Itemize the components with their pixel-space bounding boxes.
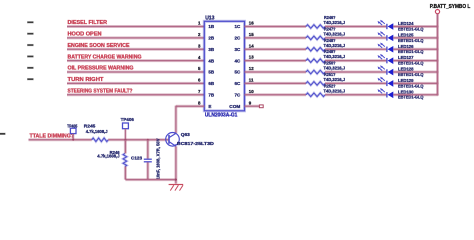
wire IC to resistor row 7	[245, 93, 307, 96]
svg-text:12: 12	[249, 66, 254, 71]
svg-text:1: 1	[198, 21, 201, 26]
svg-text:T4D,3216,J: T4D,3216,J	[324, 66, 346, 71]
wire row 2 left	[67, 36, 204, 39]
LED LED125	[378, 31, 394, 41]
svg-text:P.BATT_SYMBO L: P.BATT_SYMBO L	[430, 4, 471, 10]
wire LED to rail row 2	[393, 36, 438, 39]
wire resistor to LED row 7	[325, 93, 386, 96]
wire base net left	[29, 138, 92, 141]
off-page dash row 3	[27, 44, 33, 46]
svg-text:16: 16	[249, 21, 254, 26]
LED LED129	[378, 77, 394, 87]
svg-text:5: 5	[198, 66, 201, 71]
svg-text:5C: 5C	[235, 70, 242, 75]
LED LED127	[378, 54, 394, 64]
svg-text:6: 6	[198, 78, 201, 83]
svg-text:9: 9	[249, 100, 252, 105]
wire IC to resistor row 2	[245, 36, 307, 39]
svg-text:1B: 1B	[208, 24, 215, 29]
svg-text:11: 11	[249, 78, 254, 83]
resistor R245	[92, 138, 108, 142]
wire to C123	[146, 140, 149, 159]
resistor R247	[306, 36, 325, 40]
svg-text:C123: C123	[131, 156, 143, 161]
wire emitter down	[174, 146, 177, 183]
svg-text:5B: 5B	[208, 70, 215, 75]
off-page dash row 5	[27, 67, 33, 69]
svg-text:4: 4	[198, 55, 201, 60]
transistor Q63 symbol	[166, 133, 180, 147]
LED LED130	[378, 88, 394, 98]
LED LED126	[378, 42, 394, 52]
junction TP405	[72, 139, 74, 141]
wire pin8 E to Q63 collector	[176, 105, 204, 108]
resistor R246	[123, 154, 127, 167]
wire row 7 left	[67, 93, 204, 96]
wire IC to resistor row 6	[245, 82, 307, 85]
wire TP406 stub	[124, 129, 126, 140]
svg-text:T4D,3216,J: T4D,3216,J	[324, 20, 346, 25]
test point TP405 square	[70, 128, 76, 133]
wire P.BATT rail	[436, 14, 439, 96]
P.BATT terminal circle	[435, 10, 439, 14]
svg-text:ULN2003A-G1: ULN2003A-G1	[205, 112, 238, 118]
svg-text:2B: 2B	[208, 36, 215, 41]
svg-text:7C: 7C	[235, 92, 242, 97]
wire LED to rail row 6	[393, 82, 438, 85]
svg-text:10nF, 1608, X7R, 50V: 10nF, 1608, X7R, 50V	[156, 138, 161, 179]
junction C123 top	[147, 139, 149, 141]
wire TP405 stub	[72, 134, 74, 140]
wire resistor to LED row 1	[325, 25, 386, 28]
resistor R251	[306, 82, 325, 86]
svg-text:U13: U13	[205, 16, 214, 22]
svg-text:Q63: Q63	[181, 132, 190, 137]
off-page dash bottom	[0, 133, 5, 135]
wire resistor to LED row 2	[325, 36, 386, 39]
wire resistor to LED row 4	[325, 59, 386, 62]
svg-text:3C: 3C	[235, 47, 242, 52]
wire LED to rail row 3	[393, 48, 438, 51]
svg-text:15: 15	[249, 32, 254, 37]
svg-text:4B: 4B	[208, 58, 215, 63]
svg-text:6B: 6B	[208, 81, 215, 86]
off-page dash row 2	[27, 33, 33, 35]
svg-text:T4D,3216,J: T4D,3216,J	[324, 31, 346, 36]
off-page dash row 6	[27, 78, 33, 80]
wire resistor to LED row 6	[325, 82, 386, 85]
svg-text:T4D,3216,J: T4D,3216,J	[324, 54, 346, 59]
wire LED to rail row 1	[393, 25, 438, 28]
junction R246 top	[124, 139, 126, 141]
LED LED124	[378, 20, 394, 30]
wire LED to rail row 4	[393, 59, 438, 62]
svg-text:7B: 7B	[208, 92, 215, 97]
wire IC to resistor row 1	[245, 25, 307, 28]
off-page dash row 4	[27, 56, 33, 58]
ground	[169, 185, 184, 191]
svg-text:COM: COM	[229, 104, 240, 109]
resistor R248	[306, 47, 325, 51]
svg-text:10: 10	[249, 89, 254, 94]
svg-text:3B: 3B	[208, 47, 215, 52]
wire LED to rail row 5	[393, 71, 438, 74]
svg-text:13: 13	[249, 55, 254, 60]
svg-text:TP406: TP406	[121, 117, 135, 122]
svg-text:4C: 4C	[235, 58, 242, 63]
svg-text:1C: 1C	[235, 24, 242, 29]
resistor R250	[306, 70, 325, 74]
svg-text:2C: 2C	[235, 36, 242, 41]
wire pin9 COM stub	[245, 105, 260, 108]
wire C123 to rail	[146, 162, 149, 179]
wire to R246	[124, 140, 127, 154]
wire R246 to rail	[124, 167, 127, 180]
junction emitter rail	[175, 179, 177, 181]
svg-text:7: 7	[198, 89, 201, 94]
LED LED128	[378, 65, 394, 75]
svg-text:8: 8	[198, 100, 201, 105]
svg-text:6C: 6C	[235, 81, 242, 86]
wire resistor to LED row 5	[325, 71, 386, 74]
wire row 1 left	[67, 25, 204, 28]
wire IC to resistor row 5	[245, 71, 307, 74]
wire IC to resistor row 4	[245, 59, 307, 62]
wire collector vertical	[174, 106, 177, 134]
wire R245 to base	[108, 138, 168, 141]
svg-text:E: E	[208, 104, 211, 109]
svg-text:3: 3	[198, 43, 201, 48]
wire LED to rail row 7	[393, 93, 438, 96]
wire row 5 left	[67, 71, 204, 74]
resistor R249	[306, 59, 325, 63]
wire row 4 left	[67, 59, 204, 62]
capacitor C123 plates	[144, 159, 152, 162]
wire resistor to LED row 3	[325, 48, 386, 51]
svg-text:4.7k,1608,J: 4.7k,1608,J	[86, 129, 109, 134]
svg-text:T4D,3216,J: T4D,3216,J	[324, 88, 346, 93]
IC U13 ULN2003A-G1 body	[204, 21, 244, 111]
resistor R246	[306, 25, 325, 29]
wire row 3 left	[67, 48, 204, 51]
svg-text:T4D,3216,J: T4D,3216,J	[324, 77, 346, 82]
test point TP406 square	[123, 123, 129, 129]
wire bottom rail	[125, 178, 175, 181]
no-connect square on COM	[259, 105, 263, 108]
resistor R252	[306, 93, 325, 97]
svg-text:T4D,3216,J: T4D,3216,J	[324, 43, 346, 48]
svg-text:14: 14	[249, 43, 254, 48]
svg-text:2: 2	[198, 32, 201, 37]
wire row 6 left	[67, 82, 204, 85]
wire IC to resistor row 3	[245, 48, 307, 51]
svg-text:R245: R245	[84, 124, 96, 129]
off-page dash row 1	[27, 22, 33, 24]
svg-text:BC817-25LT3D: BC817-25LT3D	[177, 141, 215, 146]
svg-text:4.7k,1608,J: 4.7k,1608,J	[97, 154, 120, 159]
